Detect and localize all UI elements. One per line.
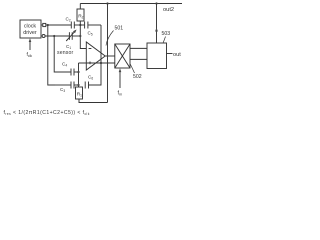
op-amp 501 triangle <box>86 42 105 70</box>
wire: R1 bottom lead to feedback return <box>79 99 108 103</box>
capacitor C3 <box>71 82 74 89</box>
svg-text:C3: C3 <box>60 87 65 93</box>
wire: y36 after C1 to node A vertical <box>72 35 80 37</box>
clock driver box <box>20 20 41 38</box>
svg-text:R2: R2 <box>78 14 83 20</box>
f_m input arrow into mixer <box>119 68 122 88</box>
svg-text:clock: clock <box>24 24 37 30</box>
node B junction dot at C3 row <box>77 84 79 86</box>
node B junction dot at C4 row <box>77 71 79 73</box>
wire: y25 after C5 to corner <box>88 24 101 26</box>
svg-text:C4: C4 <box>62 62 67 68</box>
mixer 502 box with X <box>115 44 130 68</box>
wire: out output of 503 <box>167 53 173 55</box>
node junction dot (47.8,25) <box>47 24 49 26</box>
capacitor C2 <box>71 22 74 29</box>
junction dot (101,62.6) <box>100 62 102 64</box>
wire: R2 bottom lead to node A <box>79 21 81 25</box>
node A junction dot (80.3,25) <box>79 24 81 26</box>
capacitor C6 <box>85 82 88 89</box>
junction dot (107.5,3.5) <box>106 2 108 4</box>
503 leader line <box>163 37 166 44</box>
svg-text:driver: driver <box>23 30 37 36</box>
clock driver non-inverted output pin square <box>43 23 46 26</box>
svg-text:C5: C5 <box>88 31 93 37</box>
wire: vertical from (47.8,25) down to C3 row y85 <box>48 25 55 85</box>
svg-text:503: 503 <box>162 31 171 37</box>
wire: op-amp inverting input from node A <box>80 25 86 49</box>
op-amp plus input sign <box>89 62 92 65</box>
502 leader line <box>130 64 134 73</box>
capacitor C5 <box>85 22 88 29</box>
wire: lower rail y62.6 from node B to mixer <box>79 62 115 64</box>
svg-text:C1: C1 <box>66 44 71 50</box>
block 503 <box>147 43 167 69</box>
junction dot (54.2,36) <box>53 35 55 37</box>
resistor R1 box <box>76 87 83 99</box>
wire: C6 right plate to x101 vertical <box>89 25 102 85</box>
wire: long feedback vertical x107.5 from out2 line <box>107 4 109 103</box>
wire: out2 feedback line y3.5 <box>80 3 182 5</box>
svg-text:501: 501 <box>115 26 124 32</box>
wire: 503 top port up to out2 line with arrow <box>155 4 158 44</box>
wire: vertical from (54.2,36) down to C4 row y72 <box>54 36 70 72</box>
svg-text:C2: C2 <box>66 17 71 23</box>
wire: C3 to node B <box>74 84 79 86</box>
svg-text:out2: out2 <box>163 7 174 13</box>
svg-text:sensor: sensor <box>57 50 73 56</box>
wire: C4 to node B <box>74 71 79 73</box>
wire: mixer output to block 503 <box>130 47 147 49</box>
svg-text:C6: C6 <box>88 75 93 81</box>
svg-text:R1: R1 <box>77 92 82 98</box>
wire: C3 row continues to node B <box>55 84 71 86</box>
wire: R2 top lead to out2 line <box>79 4 81 10</box>
wire: op-amp output to mixer <box>105 55 115 57</box>
svg-text:502: 502 <box>133 74 142 80</box>
capacitor C4 <box>71 69 74 76</box>
resistor R2 box <box>77 9 84 21</box>
501 leader line <box>106 31 114 46</box>
svg-text:fres < 1/(2πR1(C1+C2+C5)) < fc: fres < 1/(2πR1(C1+C2+C5)) < fclk <box>4 110 90 116</box>
wire: y25 between C2 and C5 <box>75 24 85 26</box>
node B vertical wire <box>78 63 80 87</box>
svg-text:out: out <box>173 52 181 58</box>
junction dot (158,3.5) <box>155 2 157 4</box>
op-amp minus input sign <box>89 48 92 50</box>
wire: top clock output y25 <box>41 24 43 26</box>
variable capacitor C1 (sensor) <box>66 30 76 42</box>
inverter bubble on clock driver output <box>42 35 45 38</box>
f_clk input arrow <box>29 38 32 50</box>
junction dot (80.3,36) <box>79 35 81 37</box>
wire: inverted clock output y36 <box>45 35 69 37</box>
